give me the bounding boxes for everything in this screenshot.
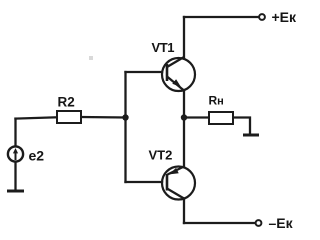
wire VT2 collector vertical bbox=[183, 199, 185, 224]
wire Rn right to ground bbox=[233, 118, 250, 135]
wire VT1 collector vertical bbox=[183, 17, 185, 58]
wire R2 right to node A bbox=[81, 116, 126, 119]
terminal -Ek bbox=[256, 215, 294, 231]
svg-text:+Ек: +Ек bbox=[272, 9, 298, 25]
node A junction dot bbox=[122, 114, 128, 120]
transistor VT1 (NPN) bbox=[152, 40, 196, 91]
resistor R2 bbox=[57, 95, 81, 124]
scan smudge bbox=[89, 56, 93, 60]
node B junction dot bbox=[181, 114, 187, 120]
source e2 bbox=[8, 146, 44, 163]
wire e2 to R2 bbox=[16, 117, 58, 118]
ground (under e2) bbox=[7, 190, 24, 193]
svg-text:VT1: VT1 bbox=[152, 40, 175, 55]
svg-text:VT2: VT2 bbox=[149, 148, 173, 163]
terminal +Ek bbox=[259, 9, 297, 25]
wire e2 bottom to ground bbox=[14, 162, 16, 191]
wire base bus vertical bbox=[124, 72, 126, 182]
wire e2 top riser bbox=[14, 119, 16, 147]
svg-text:Rн: Rн bbox=[209, 94, 224, 108]
wire bottom rail to -Ek bbox=[184, 222, 255, 224]
resistor Rn bbox=[209, 94, 234, 125]
wire VT1 base bbox=[126, 71, 163, 73]
wire VT2 base bbox=[126, 181, 163, 183]
svg-text:e2: e2 bbox=[29, 148, 45, 164]
wire VT1 emitter vertical bbox=[183, 90, 185, 118]
svg-text:–Ек: –Ек bbox=[269, 215, 294, 231]
wire top rail to +Ek bbox=[184, 16, 259, 18]
ground (right, after Rn) bbox=[243, 134, 259, 137]
wire VT2 emitter vertical bbox=[183, 118, 185, 167]
svg-text:R2: R2 bbox=[58, 95, 75, 110]
transistor VT2 (PNP) bbox=[149, 148, 196, 200]
wire node B to Rn bbox=[184, 116, 209, 118]
